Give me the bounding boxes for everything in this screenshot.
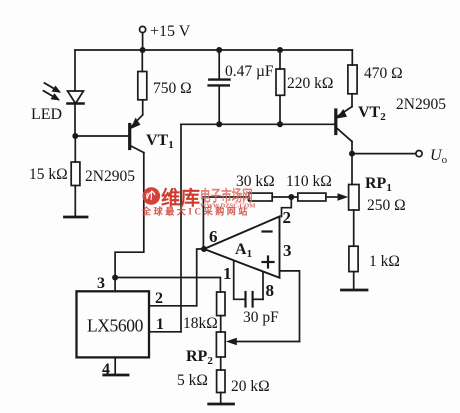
node: cap top junction (216, 47, 222, 53)
svg-text:1 kΩ: 1 kΩ (369, 253, 400, 270)
wire: to Uo terminal (352, 153, 416, 155)
pin 4 wire (LX5600) (114, 357, 116, 375)
wire: collector VT2 down (351, 142, 353, 185)
IC LX5600 (77, 291, 150, 357)
wire: mid rail down to LX5600 pin 1 (180, 124, 182, 331)
wire: 20k to ground (220, 393, 222, 405)
svg-text:+15 V: +15 V (150, 23, 191, 40)
svg-text:0.47 µF: 0.47 µF (225, 63, 274, 80)
node: op-amp output (pin 6) (201, 246, 207, 252)
node: Uo junction (349, 151, 355, 157)
resistor 470 (348, 65, 357, 94)
ground (15k) (65, 216, 88, 219)
resistor 20k (217, 370, 225, 393)
wire: rail down to 470 (351, 50, 353, 65)
svg-text:470 Ω: 470 Ω (364, 65, 403, 82)
svg-text:2N2905: 2N2905 (396, 96, 446, 113)
op-amp A1 (204, 217, 280, 278)
wire: emitter VT1 up to 750 (142, 100, 144, 115)
wire: pin 3 to RP2 wiper line (280, 271, 300, 342)
transistor VT2 (336, 107, 352, 142)
svg-text:VT1: VT1 (146, 132, 174, 151)
ground (20k) (209, 403, 234, 406)
svg-text:30 pF: 30 pF (243, 309, 279, 326)
svg-text:110 kΩ: 110 kΩ (286, 173, 332, 190)
LED light arrows (44, 83, 62, 101)
wire: pin 2 elbow from feedback node (282, 197, 292, 217)
RP2 wiper arrow (226, 338, 300, 346)
svg-text:2: 2 (155, 290, 163, 307)
svg-text:20 kΩ: 20 kΩ (231, 378, 270, 395)
svg-text:RP2: RP2 (186, 348, 213, 367)
svg-text:2N2905: 2N2905 (85, 168, 135, 185)
wire+arrow: 110k into RP1 wiper (326, 193, 348, 201)
terminal Uo (416, 151, 422, 157)
svg-text:3: 3 (97, 275, 105, 292)
svg-text:A1: A1 (235, 241, 252, 260)
wire: base of VT1 (75, 135, 128, 137)
wire: RP2 to 20k (220, 357, 222, 370)
pin 1 wire (op-amp) (234, 261, 246, 299)
wire: middle rail (cap bottom / 220k bottom / VT2 base) (181, 123, 334, 125)
wire: 18k to RP2 (220, 316, 222, 332)
svg-text:1: 1 (156, 316, 164, 333)
resistor 15k (71, 162, 80, 186)
svg-text:18kΩ: 18kΩ (183, 315, 218, 332)
svg-text:250 Ω: 250 Ω (367, 197, 406, 214)
wire: pin 6 to LX5600 pin 2 (197, 249, 204, 306)
svg-text:2: 2 (283, 208, 292, 227)
minus input mark (263, 230, 272, 232)
wire: rail down to LED (74, 50, 76, 91)
node: feedback junction (288, 194, 294, 200)
node 3 junction (112, 275, 118, 281)
svg-text:15 kΩ: 15 kΩ (29, 166, 68, 183)
ground (1k) (342, 289, 368, 292)
pin 2 wire (LX5600) (149, 305, 197, 307)
potentiometer RP1 (349, 185, 359, 211)
wire: node 3 right to 18k (115, 278, 220, 293)
svg-text:750 Ω: 750 Ω (153, 80, 192, 97)
wire: 470 to emitter VT2 (351, 94, 353, 107)
wire: 30k to 110k (272, 196, 298, 198)
capacitor 0.47uF (209, 50, 230, 124)
svg-text:LX5600: LX5600 (87, 316, 144, 336)
node: cap bottom (216, 121, 222, 127)
svg-text:6: 6 (209, 227, 218, 246)
svg-text:220 kΩ: 220 kΩ (287, 75, 333, 92)
wire: node 3 to LX5600 pin 3 (114, 278, 116, 292)
node: supply junction (140, 47, 146, 53)
svg-text:1: 1 (223, 264, 232, 283)
wire: rail to 750 (141, 50, 143, 72)
pin 8 wire (op-amp) (262, 273, 264, 300)
node: 220k top junction (277, 47, 283, 53)
wire: 15k to ground (74, 186, 76, 218)
capacitor 30pF (246, 292, 264, 307)
svg-text:LED: LED (31, 106, 62, 123)
resistor 30k (249, 193, 272, 201)
wire: LED to node A (74, 104, 76, 137)
+15V supply terminal (140, 26, 146, 50)
resistor 750 (138, 72, 147, 100)
wire: node A down to 15k (74, 136, 76, 162)
wire: 1k to ground (353, 272, 355, 290)
svg-text:VT2: VT2 (358, 104, 386, 123)
resistor 110k (298, 193, 326, 201)
svg-text:8: 8 (266, 281, 275, 300)
ground (pin 4) (104, 374, 128, 377)
wire: 30k row left lead (203, 196, 248, 198)
wire: top supply rail (75, 49, 352, 51)
svg-text:3: 3 (283, 241, 292, 260)
resistor 220k (276, 50, 285, 124)
node: 220k bottom (277, 121, 283, 127)
wire: pin 6 up to 30k (202, 197, 205, 249)
svg-text:RP1: RP1 (365, 175, 392, 194)
watermark logo (143, 187, 161, 205)
resistor 1k (349, 246, 358, 271)
svg-text:全球最大IC采购网站: 全球最大IC采购网站 (141, 206, 250, 217)
node A: LED/base/15k junction (72, 133, 78, 139)
plus input mark (263, 257, 274, 268)
pin 1 wire (LX5600) (149, 331, 181, 333)
resistor 18k (217, 292, 225, 316)
svg-text:Uo: Uo (430, 147, 448, 166)
transistor VT1 (130, 115, 144, 153)
potentiometer RP2 (216, 332, 225, 357)
wire: RP1 to 1k (353, 210, 355, 246)
LED D1 (68, 91, 84, 104)
wire: VT1 collector down to node 3 (115, 153, 144, 278)
svg-text:5 kΩ: 5 kΩ (177, 372, 208, 389)
